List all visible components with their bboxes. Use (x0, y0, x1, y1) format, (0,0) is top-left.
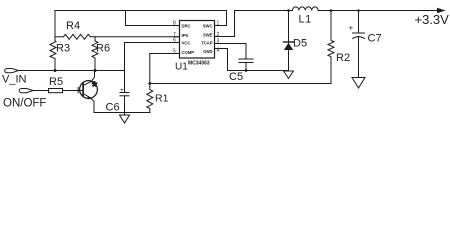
svg-text:V_IN: V_IN (2, 74, 27, 86)
svg-text:R1: R1 (155, 93, 169, 105)
svg-text:C7: C7 (368, 33, 382, 45)
wire top rail B (235, 10, 288, 12)
resistor R5 (49, 89, 63, 93)
connector ON/OFF (19, 89, 33, 93)
wire pin stubs left (175, 26, 180, 54)
resistor R2 (328, 11, 334, 84)
svg-text:R3: R3 (56, 43, 70, 55)
capacitor C6 (120, 71, 129, 116)
wire VCC riser (124, 43, 126, 71)
resistor R6 (92, 37, 98, 71)
wire feedback to R2 (150, 83, 331, 85)
ground under C6 (120, 115, 130, 123)
svg-text:MC34063: MC34063 (188, 61, 210, 67)
svg-text:TCAP: TCAP (201, 40, 213, 45)
transistor Q1 (80, 71, 98, 113)
connector V_IN (5, 69, 19, 73)
wire top rail C (318, 10, 440, 12)
svg-text:IPK: IPK (182, 33, 189, 38)
wire V_IN rail (19, 70, 125, 72)
wire bottom rail (94, 112, 150, 114)
wire R4 rail to pin7 (55, 36, 64, 38)
svg-text:+: + (120, 87, 124, 94)
svg-text:C6: C6 (106, 102, 120, 114)
wire R5 to base (63, 90, 84, 92)
svg-text:2: 2 (217, 32, 220, 38)
svg-text:R6: R6 (96, 43, 110, 55)
wire GND pin4 down (221, 49, 228, 71)
svg-text:8: 8 (173, 21, 176, 27)
wire COMP riser (149, 54, 151, 84)
svg-text:3: 3 (217, 39, 220, 45)
wire R4 rail right (91, 36, 180, 38)
svg-text:D5: D5 (293, 38, 307, 50)
wire pin stubs right (215, 26, 221, 49)
output arrow +3.3V (437, 8, 446, 13)
wire TCAP to C5 (221, 44, 247, 60)
wire VCC to pin6 (125, 42, 180, 44)
svg-text:1: 1 (217, 21, 220, 27)
inductor L1 (289, 7, 319, 11)
capacitor C5 (239, 59, 253, 71)
svg-text:+: + (349, 23, 354, 32)
wire base tick (77, 88, 79, 93)
svg-text:GND: GND (203, 49, 212, 54)
svg-text:SWE: SWE (203, 32, 213, 37)
wire pin2 riser (221, 11, 235, 37)
capacitor C7 (349, 11, 365, 78)
svg-text:*: * (92, 78, 98, 94)
node R2 top junction (330, 9, 333, 12)
ground under D5 (284, 71, 294, 79)
resistor R1 (147, 84, 153, 113)
svg-text:+3.3V: +3.3V (415, 12, 450, 27)
svg-text:R5: R5 (49, 76, 63, 88)
svg-text:L1: L1 (299, 14, 312, 26)
diode D5 (284, 11, 294, 71)
node R1/feedback junction (148, 82, 151, 85)
svg-text:4: 4 (217, 48, 220, 54)
svg-text:COMP: COMP (182, 50, 195, 55)
node V_IN/R6/Q1 junction (94, 69, 97, 72)
svg-text:DRC: DRC (182, 23, 191, 28)
wire riser top-left (54, 11, 56, 37)
svg-text:U1: U1 (175, 62, 188, 73)
wire pin8 drop (126, 11, 180, 26)
svg-text:5: 5 (173, 49, 176, 55)
wire pin1 riser (221, 11, 227, 26)
wire ON/OFF to R5 (34, 90, 49, 92)
op-amp U1 IC box (180, 21, 215, 59)
ground under C7 (352, 78, 365, 89)
svg-text:VCC: VCC (182, 40, 191, 45)
wire top rail A (55, 10, 227, 12)
wire ground run to D5 (228, 70, 289, 72)
resistor R4 (64, 34, 91, 39)
svg-text:SWC: SWC (203, 23, 213, 28)
svg-text:C5: C5 (229, 71, 243, 83)
svg-text:R2: R2 (336, 52, 350, 64)
svg-text:R4: R4 (66, 20, 80, 32)
node C5 ground junction (245, 69, 248, 72)
wire COMP to pin5 (150, 53, 180, 55)
svg-text:ON/OFF: ON/OFF (3, 98, 46, 110)
node D5 rail junction (287, 9, 290, 12)
resistor R3 (50, 37, 56, 71)
node C7 top junction (357, 9, 360, 12)
svg-text:6: 6 (173, 38, 176, 44)
node V_IN/R3 junction (54, 69, 57, 72)
